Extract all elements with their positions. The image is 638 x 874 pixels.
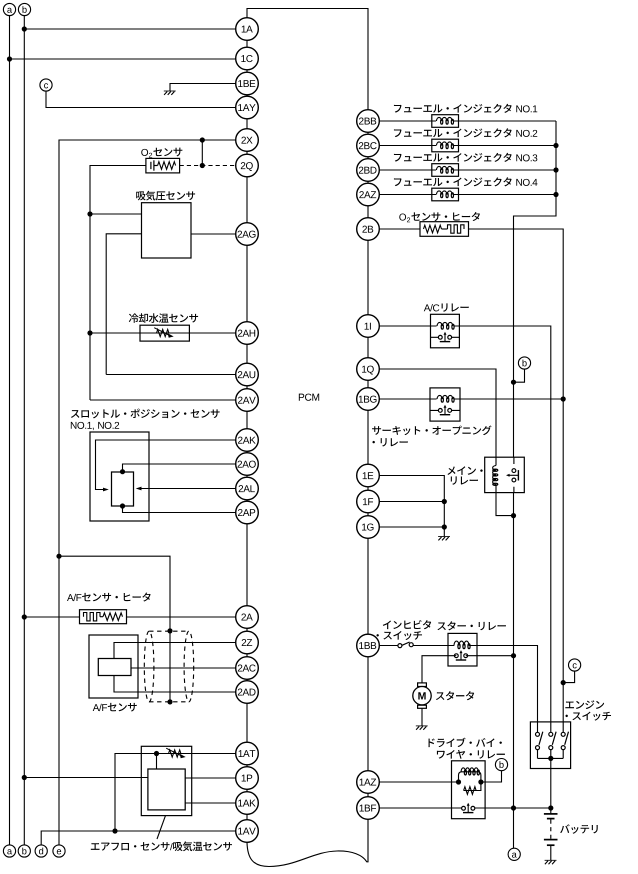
wire starter relay contact to starter xyxy=(422,656,448,683)
label O2 sensor heater xyxy=(399,212,480,222)
wire trunk 2Q-2AG xyxy=(246,177,248,223)
connector b bottom xyxy=(18,845,30,857)
wire trunk 1F-1G xyxy=(367,513,369,516)
PCM pin 1C xyxy=(236,47,259,70)
wire trunk 2BB-2BC xyxy=(367,132,369,134)
ground starter motor xyxy=(416,726,428,730)
connector a top-left xyxy=(3,3,15,15)
label fuel injector NO.2 xyxy=(394,128,537,137)
wire 2AP to pot bottom xyxy=(123,506,236,513)
wire trunk 1BE-1AY xyxy=(246,95,248,96)
wire trunk 2AK-2AO xyxy=(246,451,248,452)
junction 1BF / main line xyxy=(511,805,516,810)
wire 2AH through coolant sensor xyxy=(90,332,236,334)
wire connector c to right line xyxy=(563,671,574,683)
wire injector NO.2 to bus xyxy=(459,145,557,147)
PCM pin 2BB xyxy=(357,110,380,133)
wire 1I to A/C relay xyxy=(379,325,430,327)
junction 2X wire / O2 sensor branch xyxy=(200,137,205,142)
wire 1P from inner box xyxy=(185,777,236,779)
PCM pin 2AD xyxy=(236,681,259,704)
shield right end xyxy=(184,631,194,702)
PCM pin 2AV xyxy=(236,389,259,412)
wire injector NO.3 to bus xyxy=(459,169,557,171)
PCM pin 2Z xyxy=(236,631,259,654)
wire 2BD to injector xyxy=(379,169,432,171)
wire 2B to heater xyxy=(379,228,420,230)
wire 2AL to wiper 2 xyxy=(141,488,236,490)
wire trunk 2B-1I xyxy=(367,240,369,314)
ground battery xyxy=(545,860,557,864)
circuit opening relay xyxy=(430,388,460,421)
wire 2AK to wiper 1 xyxy=(96,440,236,490)
wire 2BC to injector xyxy=(379,145,432,147)
wire 2A to heater xyxy=(127,616,236,618)
shield top edge xyxy=(149,630,189,632)
engine switch xyxy=(530,722,570,769)
PCM pin 1AV xyxy=(236,820,259,843)
wire 2AC to A/F element xyxy=(131,667,236,669)
wiper arrow 1 (2AK) xyxy=(103,488,109,492)
junction rail b / heater xyxy=(22,614,27,619)
junction 1F xyxy=(442,499,447,504)
wire rail a xyxy=(9,16,11,846)
connector c right xyxy=(569,659,581,671)
wire 2Q dashed from O2 sensor xyxy=(180,165,236,167)
PCM pin 1P xyxy=(236,767,259,790)
wire 1G xyxy=(379,526,444,528)
wire inhibitor switch to relay xyxy=(413,645,448,647)
PCM pin 1A xyxy=(236,18,259,41)
ground 1E/1F/1G xyxy=(438,537,450,541)
PCM pin 1G xyxy=(357,516,380,539)
label drive-by-wire relay line1 xyxy=(428,738,501,747)
wire 1AY to connector c xyxy=(46,91,236,108)
wire O2 sensor signal branch xyxy=(201,140,203,166)
wire 2AV to left rail xyxy=(90,399,236,401)
wire trunk 1BG-1E xyxy=(367,410,369,464)
wire trunk 1C-1BE xyxy=(246,70,248,72)
junction coil node left xyxy=(456,779,461,784)
wire starter to ground xyxy=(421,708,423,726)
junction left rail / coolant sensor xyxy=(87,330,92,335)
wire MAP sensor upper xyxy=(90,213,142,215)
wire 1AV to connector d xyxy=(41,831,236,845)
junction contact / main line xyxy=(511,653,516,658)
wire 1AT through thermistor xyxy=(115,754,236,832)
wire 2AO to pot top xyxy=(123,464,236,472)
wire trunk 1G-1BB xyxy=(367,538,369,634)
junction pot bottom terminal xyxy=(120,503,125,508)
PCM pin 2AH xyxy=(236,322,259,345)
label airflow sensor xyxy=(91,841,232,851)
battery xyxy=(544,808,558,860)
fuel injector NO.2 xyxy=(432,139,459,152)
wire 1AK xyxy=(185,802,236,804)
junction rail e / shield branch xyxy=(56,554,61,559)
junction main line / connector b xyxy=(511,380,516,385)
wire trunk 1P-1AK xyxy=(246,789,248,791)
PCM pin 1AZ xyxy=(357,771,380,794)
wire trunk 2AO-2AL xyxy=(246,475,248,477)
wire 1Q to main relay coil xyxy=(379,369,496,457)
junction engine switch common xyxy=(548,756,553,761)
wire trunk 1AT-1P xyxy=(246,765,248,767)
PCM pin 2AK xyxy=(236,429,259,452)
wire thermistor lead to inner box xyxy=(156,754,158,770)
label drive-by-wire relay line2 xyxy=(437,750,505,759)
wire 2AG to MAP sensor xyxy=(191,233,236,235)
label coolant temp sensor xyxy=(129,313,198,323)
PCM pin 1AY xyxy=(236,96,259,119)
PCM pin 1BB xyxy=(357,634,380,657)
wire 2AD to A/F element bottom xyxy=(114,676,236,693)
wire 1BG to right line xyxy=(460,398,563,400)
wire trunk 2X-2Q xyxy=(246,151,248,154)
PCM pin 2BD xyxy=(357,159,380,182)
junction injector bus NO.3 xyxy=(553,167,558,172)
label fuel injector NO.1 xyxy=(394,104,537,113)
junction injector bus NO.4 xyxy=(553,192,558,197)
label starter relay xyxy=(437,621,505,630)
wire 2Z to A/F element top xyxy=(114,643,236,659)
label fuel injector NO.3 xyxy=(394,153,537,162)
junction rail b / 1A wire xyxy=(22,26,27,31)
wire 1BF to relay xyxy=(379,807,451,809)
wire main line lower xyxy=(513,493,515,849)
wire 1P to rail b xyxy=(24,777,148,779)
wire trunk 2AC-2AD xyxy=(246,679,248,680)
PCM pin 2AG xyxy=(236,223,259,246)
coolant temp sensor (thermistor) xyxy=(140,325,189,341)
junction rail b / 1P xyxy=(22,775,27,780)
wire 1E xyxy=(379,476,444,537)
wire 2BB to injector xyxy=(379,120,432,122)
label circuit opening relay line2 xyxy=(372,438,407,446)
leader line airflow label xyxy=(157,816,166,839)
wire 1F xyxy=(379,501,444,503)
O2 sensor element xyxy=(146,158,180,173)
wire 1BE to ground xyxy=(170,84,236,92)
starter relay xyxy=(448,633,477,666)
junction pot top terminal xyxy=(120,469,125,474)
wire trunk 1AY-2X xyxy=(246,119,248,129)
wire coil node to connector b xyxy=(481,771,502,783)
PCM pin 2AO xyxy=(236,453,259,476)
starter motor M xyxy=(413,683,431,708)
wire trunk 1I-1Q xyxy=(367,337,369,357)
connector b right-mid xyxy=(518,357,530,369)
PCM pin 1E xyxy=(357,464,380,487)
label battery xyxy=(560,824,598,833)
wire 1BB to inhibitor switch xyxy=(379,645,398,647)
junction 1BG / right line xyxy=(561,396,566,401)
label engine switch line2 xyxy=(565,712,611,721)
wire MAP sensor lower to 2AU rail xyxy=(106,234,141,375)
PCM pin 2Q xyxy=(236,154,259,177)
wire trunk 2AP-2A xyxy=(246,524,248,606)
wire engine switch output xyxy=(550,769,552,809)
PCM pin 2AC xyxy=(236,657,259,680)
wire shield ground through xyxy=(169,631,171,702)
A/F sensor element box xyxy=(98,659,131,676)
label A/C relay xyxy=(424,303,469,311)
shield bottom edge xyxy=(149,701,189,703)
wire trunk 2AG-2AH xyxy=(246,245,248,321)
label main relay line1 xyxy=(447,466,482,475)
wire main relay coil return xyxy=(496,493,514,516)
PCM pin 2B xyxy=(357,218,380,241)
wire A/C relay to engine switch xyxy=(459,326,550,722)
connector a bottom-right xyxy=(508,848,520,860)
PCM pin 2BC xyxy=(357,134,380,157)
PCM label xyxy=(299,394,319,401)
PCM pin 2AL xyxy=(236,477,259,500)
wire trunk 1E-1F xyxy=(367,487,369,490)
intake pressure sensor box xyxy=(142,203,192,258)
wiper arrow 2 (2AL) xyxy=(136,487,142,491)
A/F sensor heater element xyxy=(80,610,127,624)
label inhibitor switch line2 xyxy=(376,631,422,640)
intake air temp thermistor xyxy=(166,748,186,758)
wire trunk 2A-2Z xyxy=(246,628,248,631)
PCM pin 2AZ xyxy=(357,183,380,206)
drive-by-wire relay contact xyxy=(452,803,486,813)
wire injector bus down-jog xyxy=(514,121,557,457)
connector d bottom xyxy=(35,845,47,857)
wire O2 heater to engine switch line xyxy=(469,229,564,722)
wire trunk 1A-1C xyxy=(246,40,248,47)
wire trunk 2BD-2AZ xyxy=(367,181,369,183)
PCM pin 2X xyxy=(236,129,259,152)
PCM pin 1AT xyxy=(236,742,259,765)
airflow sensor outer box xyxy=(141,746,191,815)
wire injector NO.4 to bus xyxy=(459,194,557,196)
inhibitor switch xyxy=(398,642,413,648)
wire trunk 2AD-1AT xyxy=(246,703,248,742)
wire trunk 2AH-2AU xyxy=(246,344,248,363)
junction shield ground top xyxy=(167,628,172,633)
throttle sensor outer box xyxy=(90,432,149,521)
PCM pin 1AK xyxy=(236,792,259,815)
label O2 sensor xyxy=(141,148,182,158)
wire shield ground branch xyxy=(59,556,170,631)
PCM pin 1I xyxy=(357,315,380,338)
label inhibitor switch line1 xyxy=(383,620,431,629)
wire trunk 2Z-2AC xyxy=(246,654,248,657)
A/C relay xyxy=(431,314,460,348)
wire 1BF contact to battery xyxy=(485,807,551,809)
wire trunk 1AK-1AV xyxy=(246,814,248,819)
junction coil return / main line xyxy=(511,513,516,518)
fuel injector NO.4 xyxy=(432,188,459,201)
label A/F sensor heater xyxy=(67,592,151,601)
wire rail b xyxy=(23,16,25,846)
label A/F sensor xyxy=(93,703,137,712)
junction injector bus NO.2 xyxy=(553,143,558,148)
connector a bottom xyxy=(3,845,15,857)
connector e bottom xyxy=(53,845,65,857)
wire 2AU xyxy=(106,374,236,376)
wire starter relay coil to engine switch xyxy=(477,646,538,722)
wire trunk 2BC-2BD xyxy=(367,157,369,159)
wire 2AZ to injector xyxy=(379,194,432,196)
wire trunk 1BB-1AZ xyxy=(367,657,369,771)
PCM pin 1F xyxy=(357,490,380,513)
junction c / right line xyxy=(561,680,566,685)
connector b right-low xyxy=(495,759,507,771)
PCM pin 2AU xyxy=(236,363,259,386)
wire trunk 2AV-2AK xyxy=(246,411,248,428)
wire heater to rail b xyxy=(24,616,79,618)
junction shield ground bottom xyxy=(167,699,172,704)
wire injector NO.1 to bus xyxy=(459,120,557,122)
connector c upper-left xyxy=(40,79,52,91)
junction 1G xyxy=(442,524,447,529)
shield left end xyxy=(144,631,154,702)
fuel injector NO.1 xyxy=(432,115,459,128)
wire 1AZ to relay coil xyxy=(379,781,458,783)
PCM pin 1BG xyxy=(357,388,380,411)
O2 sensor heater element xyxy=(420,222,469,237)
PCM outline bottom wavy edge xyxy=(247,819,368,866)
junction thermistor / inner box lead xyxy=(154,751,159,756)
label fuel injector NO.4 xyxy=(394,177,538,186)
PCM pin 1Q xyxy=(357,358,380,381)
wire trunk 2AU-2AV xyxy=(246,386,248,389)
fuel injector NO.3 xyxy=(432,164,459,177)
junction O2 branch / 2Q wire xyxy=(200,163,205,168)
throttle potentiometer element xyxy=(112,472,134,506)
wire engine switch to battery xyxy=(550,758,552,768)
A/F sensor outer box xyxy=(89,635,138,698)
label engine switch line1 xyxy=(565,700,604,709)
label intake pressure sensor xyxy=(136,191,195,201)
airflow sensor inner box xyxy=(148,769,185,810)
main relay xyxy=(485,457,525,492)
junction left rail / MAP wire xyxy=(87,211,92,216)
wire 1A to rail b xyxy=(24,28,235,30)
PCM pin 1BE xyxy=(236,72,259,95)
wire 1C to rail a xyxy=(10,58,236,60)
PCM pin 2AP xyxy=(236,501,259,524)
junction 1BF / battery xyxy=(548,805,553,810)
wire trunk 1AZ-1BF xyxy=(367,793,369,796)
wire trunk 2AZ-2B xyxy=(367,206,369,218)
junction coil node right xyxy=(478,779,483,784)
label throttle sensor NO.1 NO.2 xyxy=(71,422,119,430)
drive-by-wire relay coil+resistor xyxy=(452,761,486,819)
junction rail a / 1C wire xyxy=(7,56,12,61)
PCM pin 2A xyxy=(236,606,259,629)
wire trunk 2AL-2AP xyxy=(246,500,248,501)
label throttle position sensor xyxy=(71,409,220,419)
label starter xyxy=(436,691,474,700)
junction 1AV / 1AT branch xyxy=(112,828,117,833)
wire connector b to main line xyxy=(514,369,525,382)
label circuit opening relay line1 xyxy=(372,425,491,435)
wire 1BG to relay xyxy=(379,398,430,400)
wire trunk 1Q-1BG xyxy=(367,380,369,387)
label main relay line2 xyxy=(451,476,478,484)
connector b top-left xyxy=(18,3,30,15)
wire O2 sensor to left rail xyxy=(90,166,146,401)
PCM pin 1BF xyxy=(357,797,380,820)
wire 2X to rail e xyxy=(59,140,236,845)
ground 1BE xyxy=(164,91,176,95)
wire starter relay contact to main line xyxy=(477,655,514,657)
PCM outline top edge xyxy=(247,9,368,110)
